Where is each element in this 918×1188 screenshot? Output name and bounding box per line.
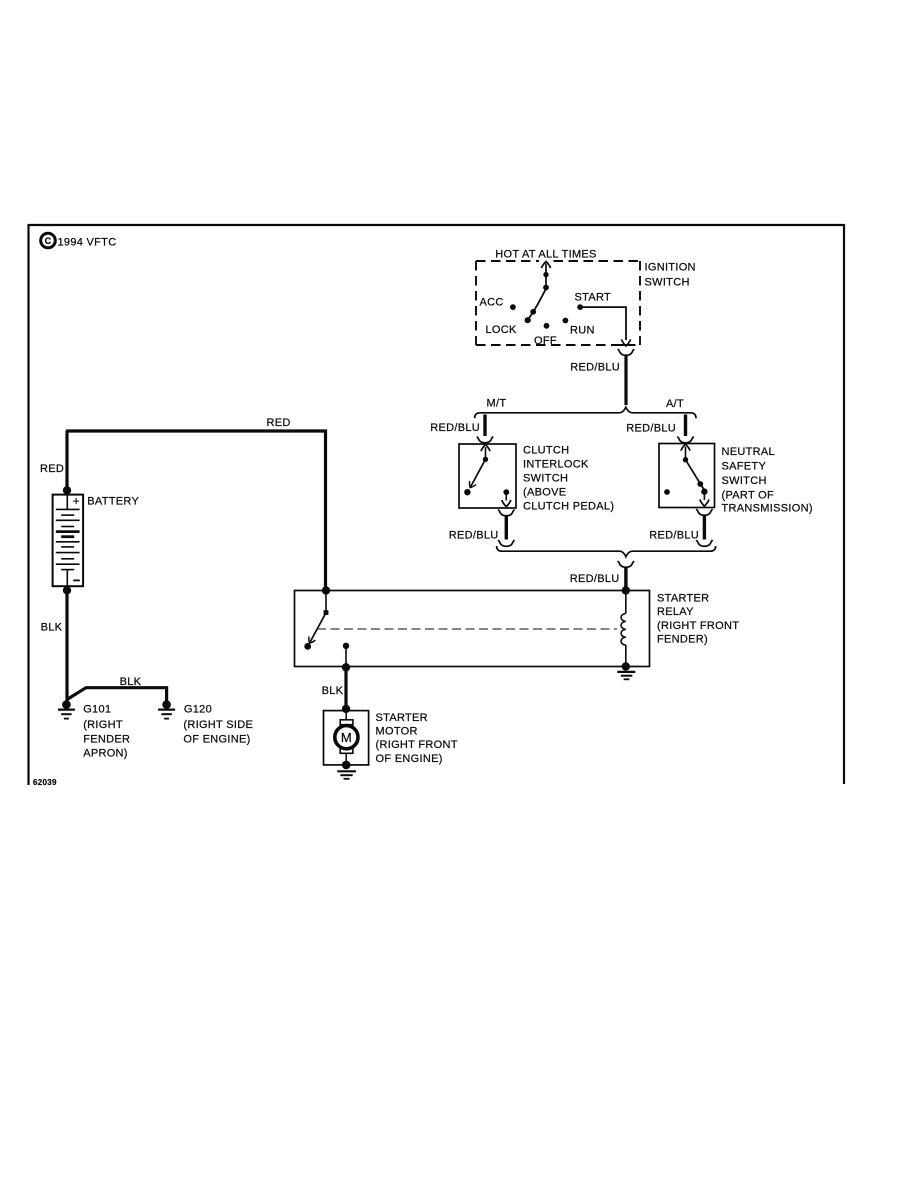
svg-text:OF ENGINE): OF ENGINE) — [183, 733, 250, 745]
svg-text:SWITCH: SWITCH — [722, 475, 767, 487]
svg-text:RED/BLU: RED/BLU — [626, 423, 676, 435]
splice brace M/T A/T — [475, 407, 696, 418]
ground at relay — [617, 672, 635, 679]
wire BLK battery to ground — [65, 586, 68, 701]
wire BLK jumper G101 to G120 — [67, 688, 167, 701]
svg-text:RED/BLU: RED/BLU — [570, 361, 620, 373]
svg-text:BATTERY: BATTERY — [87, 496, 139, 508]
copyright notice — [41, 233, 117, 248]
svg-text:FENDER: FENDER — [83, 733, 130, 745]
svg-text:MOTOR: MOTOR — [376, 726, 418, 738]
svg-text:CLUTCH: CLUTCH — [523, 445, 569, 457]
contact RUN — [563, 318, 569, 324]
wire M/T branch RED/BLU — [483, 415, 486, 437]
wire A/T branch RED/BLU — [684, 415, 687, 437]
splice brace to starter relay — [497, 546, 716, 557]
svg-text:STARTER: STARTER — [657, 593, 709, 605]
border frame — [29, 225, 845, 785]
ignition switch box (dashed) — [476, 261, 640, 345]
relay coil L1 — [621, 591, 626, 667]
wire RED battery to relay — [66, 431, 326, 590]
wire RED/BLU below neutral switch — [703, 516, 706, 540]
svg-text:FENDER): FENDER) — [657, 634, 708, 646]
svg-text:(RIGHT: (RIGHT — [83, 719, 123, 731]
svg-text:RED: RED — [267, 417, 291, 429]
neutral safety switch label — [722, 446, 813, 515]
connector below neutral safety switch — [696, 509, 712, 515]
svg-text:BLK: BLK — [41, 622, 63, 634]
svg-text:TRANSMISSION): TRANSMISSION) — [722, 503, 813, 515]
relay internal dashed link — [317, 628, 617, 630]
junction at battery positive — [63, 486, 71, 494]
svg-text:START: START — [575, 292, 612, 304]
starter relay K1 — [295, 591, 650, 667]
starter motor label — [376, 712, 458, 765]
svg-text:OFF: OFF — [534, 335, 557, 347]
svg-text:A/T: A/T — [666, 398, 684, 410]
svg-text:(RIGHT FRONT: (RIGHT FRONT — [657, 620, 739, 632]
svg-text:STARTER: STARTER — [376, 712, 428, 724]
wire RED/BLU below clutch switch — [505, 516, 508, 540]
relay output contact — [343, 643, 349, 667]
connector at clutch branch wire end — [498, 540, 514, 546]
svg-text:IGNITION: IGNITION — [645, 262, 696, 274]
svg-text:RED/BLU: RED/BLU — [570, 573, 620, 585]
svg-text:(ABOVE: (ABOVE — [523, 486, 566, 498]
junction at starter motor input — [342, 705, 350, 713]
junction relay output — [342, 663, 350, 671]
contact ACC — [510, 304, 516, 310]
ground G120 — [158, 700, 175, 718]
svg-text:RED/BLU: RED/BLU — [430, 422, 480, 434]
ground G120 label — [183, 704, 253, 746]
connector below ignition switch — [618, 349, 634, 355]
svg-text:CLUTCH PEDAL): CLUTCH PEDAL) — [523, 501, 614, 513]
wire RED to battery positive — [65, 431, 68, 494]
junction at relay coil input — [622, 586, 630, 594]
svg-text:M/T: M/T — [487, 397, 507, 409]
clutch interlock switch S1 — [459, 444, 516, 508]
ignition switch wiper arrow to HOT feed — [541, 262, 550, 291]
wire START output — [580, 307, 631, 346]
svg-text:RED/BLU: RED/BLU — [449, 530, 499, 542]
svg-text:1994 VFTC: 1994 VFTC — [58, 237, 117, 249]
junction relay coil to ground — [622, 662, 630, 670]
wire RED/BLU from ignition — [624, 356, 627, 406]
svg-text:SWITCH: SWITCH — [645, 276, 690, 288]
svg-text:(PART OF: (PART OF — [722, 490, 775, 502]
clutch interlock switch label — [523, 445, 614, 513]
connector above clutch interlock switch — [477, 437, 493, 443]
ground at starter motor — [337, 771, 356, 779]
svg-text:HOT AT ALL TIMES: HOT AT ALL TIMES — [495, 249, 596, 261]
contact START — [577, 304, 583, 310]
svg-text:NEUTRAL: NEUTRAL — [722, 446, 775, 458]
svg-text:(RIGHT FRONT: (RIGHT FRONT — [376, 739, 458, 751]
wire RED/BLU to starter relay — [624, 568, 627, 591]
junction at starter motor ground — [342, 761, 351, 770]
contact OFF — [544, 323, 550, 329]
connector above starter relay — [618, 561, 634, 567]
ignition switch wiper lever — [525, 288, 547, 323]
svg-text:INTERLOCK: INTERLOCK — [523, 458, 589, 470]
svg-text:BLK: BLK — [120, 676, 142, 688]
relay switch contact — [304, 591, 328, 650]
connector below clutch interlock switch — [498, 510, 514, 516]
ground G101 label — [83, 704, 130, 760]
svg-text:RED: RED — [40, 463, 64, 475]
svg-text:RED/BLU: RED/BLU — [649, 530, 699, 542]
svg-text:M: M — [341, 730, 352, 745]
svg-text:+: + — [73, 496, 80, 508]
connector above neutral safety switch — [677, 437, 693, 443]
svg-text:(RIGHT SIDE: (RIGHT SIDE — [183, 719, 253, 731]
svg-text:62039: 62039 — [33, 778, 57, 787]
svg-text:APRON): APRON) — [83, 748, 128, 760]
svg-text:LOCK: LOCK — [486, 324, 518, 336]
svg-text:RELAY: RELAY — [657, 606, 694, 618]
connector at neutral branch wire end — [696, 540, 712, 546]
junction relay switch input — [322, 586, 330, 594]
svg-text:SWITCH: SWITCH — [523, 472, 568, 484]
svg-text:SAFETY: SAFETY — [722, 461, 767, 473]
battery B1 — [53, 495, 84, 587]
svg-text:OF ENGINE): OF ENGINE) — [376, 753, 443, 765]
ground G101 — [58, 700, 75, 718]
starter relay label — [657, 593, 739, 646]
svg-text:G101: G101 — [83, 704, 111, 716]
starter motor M1 — [324, 711, 369, 765]
svg-text:C: C — [45, 236, 52, 246]
neutral safety switch S2 — [659, 444, 715, 508]
svg-text:ACC: ACC — [480, 297, 504, 309]
svg-text:G120: G120 — [184, 704, 212, 716]
junction at battery negative — [63, 586, 71, 594]
svg-text:BLK: BLK — [322, 685, 344, 697]
wire BLK relay to starter motor — [344, 667, 347, 711]
svg-text:RUN: RUN — [570, 325, 595, 337]
